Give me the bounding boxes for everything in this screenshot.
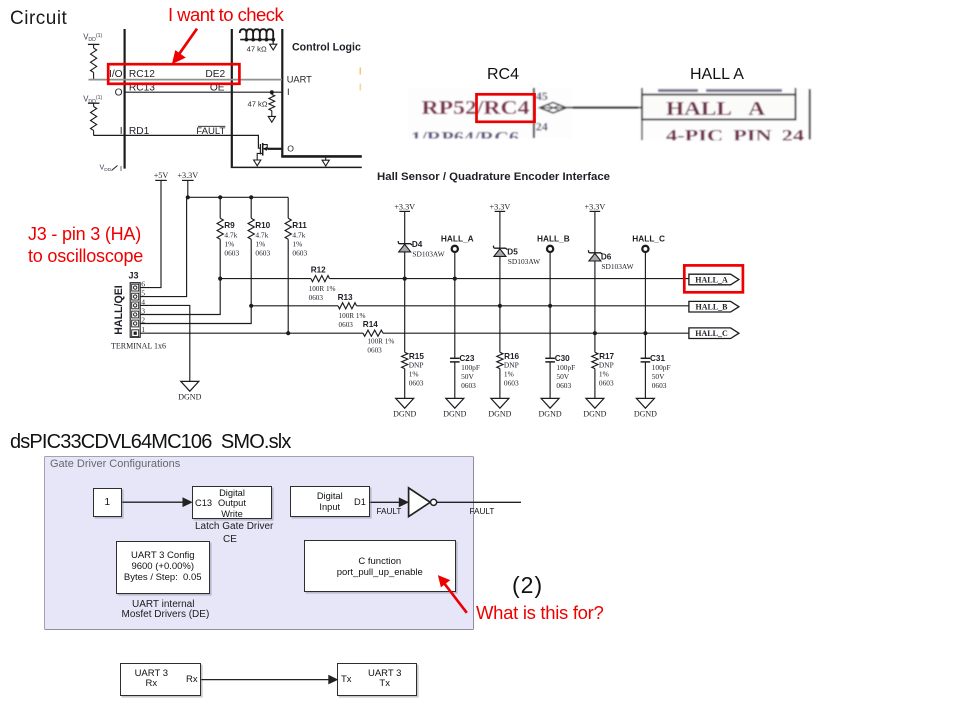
junction bus/R10	[249, 195, 253, 199]
diode D5 SD103AW	[490, 202, 541, 305]
red annotation box around RC4	[477, 94, 535, 122]
junction bus/pin5	[186, 195, 190, 199]
svg-text:R12: R12	[311, 266, 326, 275]
wire row HALL_A / R12	[220, 278, 689, 280]
highlight dashes	[359, 68, 361, 91]
strip background	[408, 88, 572, 138]
svg-text:45: 45	[536, 89, 548, 103]
control logic box	[281, 29, 362, 156]
inverter NOT gate D1/FAULT	[409, 488, 437, 517]
svg-text:R11: R11	[292, 221, 307, 230]
HALL A box	[642, 95, 796, 120]
svg-text:VDD: VDD	[100, 163, 112, 173]
svg-text:R13: R13	[338, 293, 353, 302]
resistor R16 DNP	[497, 306, 520, 399]
svg-text:0603: 0603	[599, 379, 614, 388]
constant block 1	[93, 488, 123, 517]
UART 3 Config block	[116, 541, 211, 594]
svg-text:RC12: RC12	[129, 69, 155, 80]
wire UART3 Rx to Tx	[201, 676, 337, 684]
svg-text:50V: 50V	[556, 372, 569, 381]
svg-text:+3.3V: +3.3V	[177, 171, 198, 180]
power +3.3V main	[177, 171, 198, 180]
svg-text:100R 1%: 100R 1%	[309, 285, 336, 293]
svg-text:50V: 50V	[652, 372, 665, 381]
svg-text:SD103AW: SD103AW	[508, 257, 540, 266]
svg-text:+3.3V: +3.3V	[490, 202, 511, 211]
wire inverter output FAULT	[437, 501, 521, 503]
junction R9/R12 row	[218, 277, 222, 281]
power Vdd2 label	[83, 94, 102, 105]
svg-text:4-PIC PIN 24: 4-PIC PIN 24	[666, 126, 804, 145]
svg-text:HALL_B: HALL_B	[695, 303, 728, 312]
resistor R14 100R	[363, 320, 395, 355]
junction R10/R13 row	[249, 304, 253, 308]
resistor R13 100R	[338, 293, 366, 329]
svg-text:+3.3V: +3.3V	[394, 202, 415, 211]
red annotation box around HALL_A flag	[684, 265, 743, 292]
svg-text:I: I	[287, 87, 290, 97]
svg-text:47 kΩ: 47 kΩ	[247, 100, 267, 109]
pin table bus line right	[231, 29, 362, 167]
svg-text:1%: 1%	[224, 239, 234, 248]
svg-text:R14: R14	[363, 320, 378, 329]
svg-text:D5: D5	[507, 247, 518, 256]
svg-text:4.7k: 4.7k	[255, 231, 268, 240]
bidirectional pin diamond	[540, 102, 567, 113]
svg-text:I: I	[120, 164, 122, 173]
svg-text:TERMINAL 1x6: TERMINAL 1x6	[111, 342, 166, 351]
svg-text:R17: R17	[599, 352, 614, 361]
svg-text:1%: 1%	[504, 369, 514, 378]
svg-text:DGND: DGND	[488, 410, 511, 419]
capacitor C30 100pF	[545, 306, 575, 399]
connector J3 TERMINAL 1x6	[111, 270, 166, 350]
junction R11/R14 row	[286, 331, 290, 335]
svg-text:I: I	[120, 126, 123, 137]
svg-text:6: 6	[141, 280, 145, 289]
ground arrow under Q1	[254, 160, 261, 166]
junction D6/R14 row	[593, 331, 597, 335]
svg-text:1%: 1%	[599, 369, 609, 378]
svg-text:UART: UART	[287, 74, 312, 84]
ground DGND C31	[636, 398, 654, 408]
capacitor C23 100pF	[450, 279, 480, 399]
diode D6 SD103AW	[585, 202, 634, 333]
capacitor C31 100pF	[641, 333, 671, 398]
wire 3.3V bus	[188, 196, 288, 198]
svg-text:24: 24	[536, 120, 548, 134]
svg-text:D6: D6	[601, 253, 612, 262]
svg-text:O: O	[115, 87, 123, 98]
red annotation arrow	[173, 29, 197, 64]
svg-text:100pF: 100pF	[556, 363, 575, 372]
svg-text:DGND: DGND	[583, 410, 606, 419]
junction HALL_B col/R13 row	[548, 304, 552, 308]
control logic port labels	[287, 74, 312, 153]
svg-text:3: 3	[141, 307, 145, 316]
ground DGND C23	[446, 398, 464, 408]
svg-text:1%: 1%	[255, 239, 265, 248]
svg-text:100pF: 100pF	[461, 363, 480, 372]
svg-text:HALL A: HALL A	[666, 98, 766, 120]
wire row HALL_B / R13	[251, 305, 689, 307]
svg-text:Hall Sensor / Quadrature Encod: Hall Sensor / Quadrature Encoder Interfa…	[377, 171, 610, 183]
junction HALL_A col/R12 row	[453, 277, 457, 281]
resistor R15 DNP	[402, 279, 425, 399]
svg-text:0603: 0603	[504, 379, 519, 388]
svg-text:HALL/QEI: HALL/QEI	[113, 285, 125, 334]
svg-text:HALL_A: HALL_A	[695, 275, 728, 284]
svg-text:0603: 0603	[367, 347, 382, 355]
svg-text:SD103AW: SD103AW	[412, 250, 444, 259]
testpoint HALL_C	[632, 234, 665, 334]
wire Digital Input to inverter	[370, 498, 408, 506]
resistor pull-up R-Vdd2	[88, 103, 100, 135]
wire R9 to R12 row and J3 pin3	[140, 239, 220, 314]
svg-text:DGND: DGND	[393, 410, 416, 419]
net flag HALL_C	[689, 328, 739, 339]
wire J3 pin4 to DGND	[140, 305, 190, 381]
Digital Output Write block	[192, 486, 272, 519]
resistor network 47k pack	[240, 29, 277, 53]
resistor pull-up R-Vdd1	[88, 44, 100, 79]
wire constant to Digital Output Write	[122, 498, 191, 506]
ground DGND R15	[396, 398, 414, 408]
HALL A table: top partial row	[642, 88, 796, 95]
svg-text:0603: 0603	[224, 248, 239, 257]
UART Rx / Tx blocks	[120, 663, 201, 696]
svg-text:J3: J3	[129, 270, 139, 280]
wire R11 to R14 row	[287, 239, 289, 333]
svg-text:5: 5	[141, 289, 145, 298]
testpoint HALL_A	[441, 234, 474, 279]
svg-text:0603: 0603	[255, 248, 270, 257]
wire +5V to J3 pin 6	[140, 180, 161, 287]
resistor R12 100R	[309, 266, 336, 302]
resistor 47k pulldown on I line	[247, 90, 275, 122]
junction HALL_C col/R14 row	[643, 331, 647, 335]
ground arrow under control logic	[322, 156, 329, 166]
resistor R17 DNP	[592, 333, 615, 398]
svg-text:C30: C30	[555, 354, 570, 363]
svg-text:0603: 0603	[461, 381, 476, 390]
svg-text:C31: C31	[650, 354, 665, 363]
svg-text:4.7k: 4.7k	[224, 231, 237, 240]
svg-text:VDD(1): VDD(1)	[83, 33, 102, 44]
wire R10 to R13 row and J3 pin2	[140, 239, 251, 323]
C function block	[304, 540, 456, 592]
Digital Input block	[290, 486, 371, 517]
ground DGND (J3 pin4)	[181, 381, 199, 391]
svg-text:DNP: DNP	[409, 361, 424, 370]
pin name labels left table	[109, 69, 226, 137]
svg-text:C23: C23	[459, 354, 474, 363]
svg-text:+3.3V: +3.3V	[585, 202, 606, 211]
resistor R10 4.7k	[248, 197, 271, 257]
svg-text:100R 1%: 100R 1%	[339, 312, 366, 320]
right outer border	[809, 89, 811, 140]
partial bottom Vdd row (clipped)	[100, 163, 123, 173]
svg-text:47 kΩ: 47 kΩ	[247, 44, 267, 53]
svg-text:R15: R15	[409, 352, 424, 361]
svg-text:1%: 1%	[409, 369, 419, 378]
svg-text:Control Logic: Control Logic	[292, 42, 361, 54]
svg-text:D4: D4	[412, 240, 423, 249]
ground DGND R17	[586, 398, 604, 408]
transistor Q1 (NMOS)	[257, 143, 282, 160]
svg-text:FAULT: FAULT	[196, 126, 225, 137]
red annotation arrow (2)	[439, 576, 467, 613]
svg-text:0603: 0603	[556, 381, 571, 390]
pin table border vertical	[533, 88, 535, 138]
wire row HALL_C / R14	[140, 332, 689, 334]
junction D4/R12 row	[403, 277, 407, 281]
wire row RC13/OE	[125, 91, 282, 93]
svg-text:0603: 0603	[409, 379, 424, 388]
svg-text:DGND: DGND	[539, 410, 562, 419]
svg-text:SD103AW: SD103AW	[601, 262, 633, 271]
svg-text:2: 2	[141, 316, 145, 325]
red annotation box around RC12 row	[108, 64, 239, 84]
power Vdd1 label	[83, 33, 102, 44]
ground DGND R16	[491, 398, 509, 408]
svg-text:DNP: DNP	[599, 361, 614, 370]
resistor R9 4.7k	[217, 197, 239, 257]
wire +3.3V drop	[187, 180, 189, 197]
svg-text:DGND: DGND	[443, 410, 466, 419]
wire J3 pin5 to bus	[140, 198, 186, 297]
svg-text:100pF: 100pF	[652, 363, 671, 372]
svg-text:1%: 1%	[292, 239, 302, 248]
wire row RC12/DE2 (gray, UART net)	[89, 79, 283, 81]
svg-text:R9: R9	[224, 221, 235, 230]
svg-text:0603: 0603	[309, 294, 324, 302]
svg-text:DE2: DE2	[205, 69, 225, 80]
svg-text:RD1: RD1	[129, 126, 150, 137]
svg-text:0603: 0603	[292, 248, 307, 257]
svg-text:HALL_C: HALL_C	[695, 329, 728, 338]
power +5V	[154, 171, 169, 180]
svg-text:4: 4	[141, 297, 145, 306]
pin table bus line left	[123, 29, 125, 169]
net flag HALL_B	[689, 301, 739, 312]
wire row RD1/FAULT to transistor gate	[94, 135, 261, 148]
svg-text:HALL_A: HALL_A	[441, 234, 474, 244]
svg-text:+5V: +5V	[154, 171, 169, 180]
diode D4 SD103AW	[394, 202, 444, 278]
wire to HALL A box	[566, 107, 642, 109]
svg-text:I/O: I/O	[109, 69, 123, 80]
svg-text:50V: 50V	[461, 372, 474, 381]
testpoint HALL_B	[537, 234, 570, 306]
svg-text:0603: 0603	[652, 381, 667, 390]
svg-text:HALL_C: HALL_C	[632, 234, 665, 244]
svg-text:HALL_B: HALL_B	[537, 234, 570, 244]
resistor R11 4.7k	[285, 197, 307, 257]
svg-text:R16: R16	[504, 352, 519, 361]
partial text 4-PIC PIN 24 (clipped)	[642, 120, 804, 145]
svg-text:4.7k: 4.7k	[292, 231, 305, 240]
svg-text:0603: 0603	[339, 321, 354, 329]
svg-text:DNP: DNP	[504, 361, 519, 370]
junction bus/R9	[218, 195, 222, 199]
svg-text:DGND: DGND	[178, 393, 201, 402]
junction D5/R13 row	[498, 304, 502, 308]
svg-text:R10: R10	[255, 221, 270, 230]
svg-text:O: O	[287, 144, 294, 154]
ground DGND C30	[541, 398, 559, 408]
net flag HALL_A	[689, 274, 739, 285]
svg-text:DGND: DGND	[634, 410, 657, 419]
svg-text:100R 1%: 100R 1%	[367, 338, 394, 346]
svg-text:1/RP64/RC6: 1/RP64/RC6	[411, 128, 519, 147]
